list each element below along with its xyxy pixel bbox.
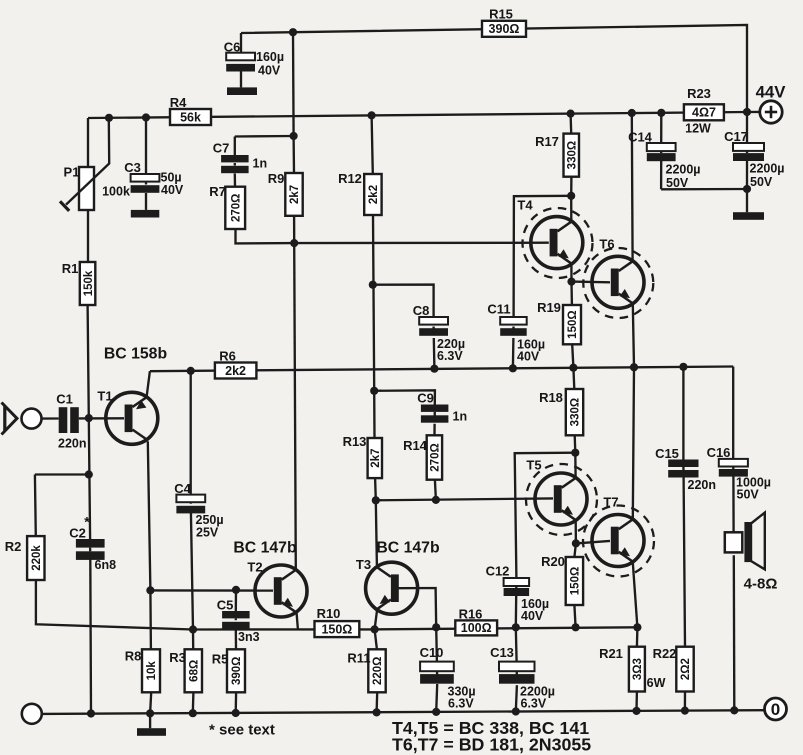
junction: C4 bottom / R3 node bbox=[189, 625, 197, 633]
junction: C9 tap on R12 chain bbox=[370, 387, 378, 395]
wire: C10 leads bbox=[435, 627, 438, 661]
svg-text:1n: 1n bbox=[253, 157, 268, 171]
wire: R22 bottom lead bbox=[684, 692, 686, 711]
input terminal circle bbox=[22, 409, 42, 429]
wire: C16 lead from output rail corner bbox=[732, 367, 734, 459]
resistor R4 bbox=[170, 109, 211, 125]
svg-text:T6,T7 = BD 181, 2N3055: T6,T7 = BD 181, 2N3055 bbox=[392, 735, 591, 755]
svg-text:50V: 50V bbox=[737, 488, 760, 502]
svg-text:270Ω: 270Ω bbox=[430, 443, 442, 471]
svg-text:R10: R10 bbox=[317, 606, 341, 621]
svg-text:390Ω: 390Ω bbox=[489, 22, 520, 36]
svg-text:C6: C6 bbox=[224, 40, 241, 55]
svg-text:C4: C4 bbox=[174, 481, 191, 496]
resistor R15 bbox=[482, 21, 526, 37]
resistor R2 bbox=[27, 536, 44, 580]
wire: R11 leads bbox=[375, 629, 377, 649]
svg-text:50V: 50V bbox=[666, 176, 689, 190]
svg-text:*: * bbox=[84, 514, 90, 530]
svg-text:C17: C17 bbox=[724, 129, 748, 144]
junction: R10 / R11 / T3 emitter node bbox=[371, 625, 379, 633]
wire: R12 chain vertical bbox=[372, 115, 373, 174]
svg-text:150Ω: 150Ω bbox=[570, 567, 582, 595]
junction: T6e/T7c on output rail bbox=[630, 363, 638, 371]
wire: T6 collector to main rail bbox=[631, 113, 634, 261]
wire: input to C1 to T1 base bbox=[42, 417, 59, 419]
wire: C2 bottom to ground rail bbox=[89, 559, 92, 714]
svg-text:R12: R12 bbox=[338, 171, 362, 186]
svg-text:T3: T3 bbox=[356, 557, 371, 572]
resistor R20 bbox=[566, 557, 583, 605]
wire: top supply rail with R15 (decoupled rail) bbox=[241, 25, 747, 112]
svg-text:390Ω: 390Ω bbox=[231, 657, 243, 685]
wire: T5 base wire from R13 node bbox=[376, 498, 553, 500]
wire: speaker bottom to ground rail bbox=[733, 555, 736, 710]
junction: R17 top on rail bbox=[567, 110, 575, 118]
svg-text:C8: C8 bbox=[413, 303, 430, 318]
svg-text:C11: C11 bbox=[487, 302, 510, 317]
resistor R18 bbox=[566, 389, 583, 435]
svg-text:C13: C13 bbox=[490, 645, 514, 660]
transistor T3 (BC147b, mirrored) bbox=[366, 562, 418, 614]
resistor R14 bbox=[427, 435, 442, 479]
capacitor C10 bbox=[420, 662, 454, 672]
svg-text:R21: R21 bbox=[599, 646, 623, 661]
transistor T2 (BC147b) bbox=[255, 565, 307, 617]
svg-text:40V: 40V bbox=[521, 609, 544, 623]
svg-text:C7: C7 bbox=[213, 141, 230, 156]
svg-text:R13: R13 bbox=[343, 434, 367, 449]
ground terminal circle bottom-left bbox=[22, 704, 42, 724]
wire: rail to 44V terminal bbox=[747, 111, 760, 113]
svg-text:2200µ: 2200µ bbox=[750, 162, 785, 176]
wire: R7 bottom to T4 base node bbox=[236, 229, 295, 243]
potentiometer P1 bbox=[79, 167, 94, 210]
junction: C4 tap on R6 node bbox=[187, 367, 195, 375]
capacitor C17 bbox=[733, 143, 764, 151]
junction: R20 bottom node bbox=[572, 623, 580, 631]
svg-text:2200µ: 2200µ bbox=[666, 163, 701, 177]
resistor R16 bbox=[455, 620, 497, 635]
wire: T3 emitter to R10/R11 node bbox=[375, 611, 377, 630]
junction: T4 emitter / T6 base / R19 node bbox=[567, 278, 575, 286]
svg-text:2k2: 2k2 bbox=[368, 185, 380, 204]
wire: C11 branch bbox=[514, 196, 572, 317]
svg-text:T6: T6 bbox=[599, 237, 614, 252]
wire: C6 lead bbox=[240, 33, 242, 53]
svg-text:C14: C14 bbox=[628, 130, 653, 145]
wire: output rail from R6 to C16 corner bbox=[150, 367, 733, 372]
wire: C16 bottom to speaker bbox=[732, 476, 735, 532]
svg-text:C10: C10 bbox=[420, 645, 444, 660]
loudspeaker 4-8 ohm bbox=[725, 532, 743, 552]
svg-text:2k7: 2k7 bbox=[289, 185, 301, 204]
junction: R23/C17/44V node bbox=[743, 108, 751, 116]
svg-text:50V: 50V bbox=[750, 175, 773, 189]
svg-text:12W: 12W bbox=[685, 122, 711, 136]
junction: C12 / C13 node bbox=[512, 623, 520, 631]
junction: R19/R18 on output rail bbox=[569, 364, 577, 372]
wire: R18 leads bbox=[572, 368, 575, 389]
junction: V3 on top rail bbox=[289, 28, 297, 36]
svg-text:T5: T5 bbox=[526, 458, 541, 473]
svg-text:R11: R11 bbox=[347, 651, 370, 666]
wire: T4 base wire bbox=[294, 242, 549, 245]
svg-text:T1: T1 bbox=[97, 389, 112, 404]
junction: C14 on rail bbox=[657, 109, 665, 117]
svg-text:BC 158b: BC 158b bbox=[104, 346, 167, 363]
wire: T2 emitter extension to R10 wire bbox=[297, 612, 298, 629]
resistor R9 bbox=[285, 173, 302, 216]
wire: C15 bottom to R22 bbox=[684, 478, 685, 647]
ground bbox=[227, 87, 257, 95]
wire: C9 branch bbox=[374, 390, 435, 404]
svg-text:R4: R4 bbox=[170, 95, 187, 110]
svg-text:6n8: 6n8 bbox=[95, 558, 117, 572]
wire: R20 leads bbox=[574, 543, 576, 557]
resistor R3 bbox=[185, 649, 202, 692]
junction: R12 top on rail bbox=[368, 111, 376, 119]
svg-text:R16: R16 bbox=[459, 607, 483, 622]
svg-text:R8: R8 bbox=[125, 649, 142, 664]
junction: R8 on ground rail bbox=[146, 709, 154, 717]
wire: R5 bottom lead bbox=[235, 692, 238, 713]
junction: C14 to C17 ground leg bbox=[743, 185, 751, 193]
wire: T6 base wire bbox=[572, 280, 611, 283]
wire: R8 lead from T2 base node bbox=[149, 590, 152, 649]
wire: C4 branch bbox=[190, 371, 192, 495]
wire: C3 lead bbox=[145, 118, 147, 175]
wire: T1 collector to R6 node bbox=[147, 371, 150, 397]
resistor R13 bbox=[368, 438, 382, 478]
junction: C2 on ground rail bbox=[87, 709, 95, 717]
svg-text:100Ω: 100Ω bbox=[461, 621, 492, 635]
junction: T7 emitter / R21 node bbox=[633, 623, 641, 631]
junction: R22 on ground rail bbox=[681, 707, 689, 715]
junction: T1 emitter / T2 base / R8 node bbox=[146, 586, 154, 594]
ground bbox=[137, 728, 166, 736]
capacitor C6 bbox=[226, 53, 255, 61]
junction: C15 on output rail bbox=[679, 363, 687, 371]
svg-text:270Ω: 270Ω bbox=[230, 194, 242, 222]
wire: C14 branch bbox=[660, 113, 662, 143]
capacitor C16 bbox=[719, 459, 748, 467]
svg-text:3Ω3: 3Ω3 bbox=[632, 658, 644, 680]
wire: R2 bottom to T2-emitter node bbox=[36, 580, 375, 630]
svg-text:T7: T7 bbox=[603, 495, 618, 510]
svg-text:P1: P1 bbox=[64, 165, 80, 180]
capacitor C11 bbox=[500, 317, 527, 325]
junction: P1 wiper on rail bbox=[105, 114, 113, 122]
capacitor C8 bbox=[419, 317, 448, 325]
junction: C13 on ground rail bbox=[512, 707, 520, 715]
resistor R6 bbox=[215, 363, 257, 379]
svg-text:C16: C16 bbox=[707, 445, 731, 460]
wire: V3 rail (R9 chain) from top rail to T2 collector bbox=[292, 32, 295, 136]
wire: R17 leads bbox=[569, 114, 572, 134]
wire: C5 leads bbox=[235, 590, 238, 611]
wire: R14 bottom bbox=[435, 480, 436, 500]
svg-text:T4: T4 bbox=[517, 198, 533, 213]
svg-text:2Ω2: 2Ω2 bbox=[680, 658, 692, 680]
wire: T2 base wire bbox=[150, 589, 273, 592]
capacitor C5 bbox=[222, 611, 250, 618]
svg-text:4-8Ω: 4-8Ω bbox=[744, 576, 778, 593]
wire: T7 emitter down to R21 node bbox=[633, 563, 638, 628]
junction: R18 bottom / T5 collector / C12 node bbox=[571, 449, 579, 457]
junction: R2 top tap bbox=[85, 470, 93, 478]
svg-text:R23: R23 bbox=[687, 86, 711, 101]
svg-text:150k: 150k bbox=[83, 270, 95, 296]
junction: R5 on ground rail bbox=[232, 709, 240, 717]
svg-text:R9: R9 bbox=[268, 171, 285, 186]
svg-text:220n: 220n bbox=[688, 478, 717, 492]
junction: C7 tap on V3 bbox=[290, 132, 298, 140]
wire: T4 collector bbox=[570, 196, 572, 222]
wire: T7 collector to output rail bbox=[633, 367, 634, 519]
resistor R12 bbox=[364, 174, 381, 215]
svg-text:44V: 44V bbox=[756, 83, 787, 102]
wire: C12 branch from T5 collector node bbox=[515, 453, 576, 578]
svg-text:4Ω7: 4Ω7 bbox=[692, 106, 716, 120]
wire: T4 emitter to T6 base / R19 node bbox=[570, 265, 572, 282]
svg-text:150Ω: 150Ω bbox=[567, 310, 579, 338]
wire: T3 base to R16/C10 node bbox=[398, 588, 436, 627]
wire: R21 leads bbox=[636, 627, 639, 646]
svg-text:R18: R18 bbox=[539, 390, 563, 405]
svg-text:0: 0 bbox=[771, 700, 780, 719]
wire: T6 emitter to output rail bbox=[633, 304, 634, 367]
svg-text:R5: R5 bbox=[212, 652, 229, 667]
44V supply terminal bbox=[760, 101, 782, 123]
svg-text:R2: R2 bbox=[5, 539, 22, 554]
svg-text:R17: R17 bbox=[535, 134, 559, 149]
ground bbox=[733, 212, 764, 220]
capacitor C4 bbox=[176, 495, 205, 503]
ground bbox=[131, 210, 160, 218]
svg-text:2k2: 2k2 bbox=[225, 364, 246, 378]
wire: T3 collector up to R13 node bbox=[376, 500, 377, 566]
capacitor C3 bbox=[131, 174, 160, 182]
junction: C8 tap on R12 chain bbox=[369, 281, 377, 289]
transistor T4 (BC338 driver) bbox=[523, 208, 593, 278]
svg-text:10k: 10k bbox=[146, 661, 158, 681]
junction: R17 bottom / T4 collector / C11 node bbox=[567, 192, 575, 200]
resistor R22 bbox=[676, 647, 693, 692]
wire: R3 leads bbox=[192, 630, 195, 650]
junction: C11 bottom on output rail bbox=[509, 364, 517, 372]
svg-text:BC 147b: BC 147b bbox=[376, 540, 439, 557]
svg-text:330Ω: 330Ω bbox=[567, 141, 579, 169]
svg-text:C3: C3 bbox=[124, 160, 141, 175]
svg-text:R7: R7 bbox=[209, 184, 226, 199]
svg-text:220Ω: 220Ω bbox=[372, 657, 384, 685]
capacitor C7 bbox=[221, 155, 249, 162]
svg-text:40V: 40V bbox=[161, 183, 184, 197]
svg-text:C12: C12 bbox=[486, 564, 510, 579]
resistor R8 bbox=[142, 649, 160, 692]
junction: T6 collector on rail bbox=[628, 109, 636, 117]
wire: C8 branch bbox=[373, 285, 434, 317]
wire: T1 emitter down to T2 base node bbox=[148, 441, 151, 590]
svg-text:160µ: 160µ bbox=[256, 50, 284, 64]
svg-text:56k: 56k bbox=[180, 110, 201, 124]
svg-text:68Ω: 68Ω bbox=[189, 660, 201, 682]
wire: node T1 base vertical down to C2 bbox=[88, 418, 91, 474]
wire: R2 top branch bbox=[35, 473, 89, 475]
junction: C3 on rail bbox=[142, 113, 150, 121]
wire: C17 leads and ground leg bbox=[746, 112, 748, 143]
svg-text:C5: C5 bbox=[217, 598, 234, 613]
capacitor C13 bbox=[499, 662, 535, 672]
junction: R3 on ground rail bbox=[189, 709, 197, 717]
capacitor C14 bbox=[647, 143, 676, 151]
transistor T7 (2N3055 output) bbox=[583, 506, 654, 577]
svg-text:150Ω: 150Ω bbox=[321, 622, 352, 636]
junction: R21 on ground rail bbox=[632, 707, 640, 715]
svg-text:40V: 40V bbox=[517, 350, 540, 364]
capacitor C15 bbox=[668, 460, 698, 468]
svg-text:* see text: * see text bbox=[209, 722, 275, 739]
input terminal arrow bbox=[2, 403, 18, 435]
transistor T1 (BC158b, PNP input) bbox=[106, 392, 158, 444]
junction: C5 tap on T2 base wire bbox=[232, 586, 240, 594]
svg-text:40V: 40V bbox=[258, 64, 281, 78]
svg-text:6.3V: 6.3V bbox=[521, 697, 547, 711]
0V output terminal bbox=[765, 698, 787, 720]
capacitor C2 bbox=[76, 539, 105, 548]
junction: C10 on ground rail bbox=[432, 708, 440, 716]
svg-text:C15: C15 bbox=[655, 446, 679, 461]
junction: T3 base / R16 / C10 node bbox=[432, 623, 440, 631]
wire: C15 lead from output rail bbox=[682, 367, 684, 460]
junction: T1 base node bbox=[85, 414, 93, 422]
wire: T5 emitter to T7 base / R20 node bbox=[575, 522, 578, 544]
svg-text:BC 147b: BC 147b bbox=[233, 540, 296, 557]
junction: R11 on ground rail bbox=[373, 708, 381, 716]
wire: T7 base wire bbox=[576, 541, 610, 544]
svg-text:220k: 220k bbox=[31, 545, 43, 571]
capacitor C9 bbox=[421, 405, 449, 412]
wire: R19 leads bbox=[570, 282, 573, 305]
svg-text:R6: R6 bbox=[219, 349, 236, 364]
capacitor C1 bbox=[59, 407, 68, 433]
wire: T5 collector bbox=[574, 453, 577, 478]
transistor T5 (BC338 driver) bbox=[526, 464, 597, 535]
resistor R1 bbox=[80, 262, 96, 305]
transistor T6 (BD181 output) bbox=[583, 248, 653, 318]
svg-text:6.3V: 6.3V bbox=[437, 349, 463, 363]
svg-text:R3: R3 bbox=[169, 650, 186, 665]
wire: bottom ground rail bbox=[42, 710, 765, 714]
resistor R5 bbox=[227, 649, 245, 692]
wire: C7 branch bbox=[235, 135, 294, 138]
resistor R19 bbox=[563, 305, 581, 344]
svg-text:220n: 220n bbox=[58, 437, 87, 451]
svg-text:6.3V: 6.3V bbox=[448, 697, 474, 711]
resistor R10 bbox=[315, 621, 360, 637]
wire: C13 leads bbox=[515, 627, 518, 661]
svg-text:R22: R22 bbox=[653, 646, 677, 661]
resistor R7 bbox=[225, 187, 245, 229]
svg-text:C9: C9 bbox=[417, 391, 434, 406]
svg-text:R1: R1 bbox=[62, 261, 79, 276]
junction: speaker on ground rail bbox=[730, 706, 738, 714]
resistor R23 bbox=[684, 104, 724, 120]
svg-text:25V: 25V bbox=[196, 526, 219, 540]
svg-text:1n: 1n bbox=[453, 410, 468, 424]
wire: T2 emitter node to R20/T7 side (R16 wire) bbox=[375, 627, 638, 629]
svg-text:330Ω: 330Ω bbox=[570, 398, 582, 426]
svg-text:R14: R14 bbox=[403, 438, 428, 453]
wire: 44V main rail (y~115) bbox=[88, 112, 747, 118]
resistor R21 bbox=[629, 647, 645, 692]
svg-text:3n3: 3n3 bbox=[238, 630, 260, 644]
junction: R9 bottom / R7 / T4 base node bbox=[290, 239, 298, 247]
wire: P1/R1 left branch down from rail bbox=[87, 118, 89, 167]
resistor R17 bbox=[564, 134, 580, 177]
wire: R8 ground stub bbox=[149, 713, 151, 728]
resistor R11 bbox=[368, 649, 385, 692]
svg-text:C1: C1 bbox=[56, 392, 73, 407]
capacitor C12 bbox=[504, 578, 529, 586]
wire: C14 bottom to C17 leg bbox=[661, 188, 747, 191]
svg-text:R15: R15 bbox=[489, 7, 513, 22]
junction: R13 bottom node bbox=[372, 496, 380, 504]
junction: R14 bottom node bbox=[432, 496, 440, 504]
svg-text:2k7: 2k7 bbox=[370, 449, 382, 468]
junction: T5 emitter / T7 base / R20 node bbox=[572, 539, 580, 547]
svg-text:100k: 100k bbox=[102, 185, 130, 199]
svg-text:R19: R19 bbox=[537, 300, 561, 315]
junction: C8 bottom on output rail bbox=[430, 365, 438, 373]
svg-text:R20: R20 bbox=[541, 554, 565, 569]
svg-text:6W: 6W bbox=[647, 676, 666, 690]
svg-text:T2: T2 bbox=[247, 560, 262, 575]
